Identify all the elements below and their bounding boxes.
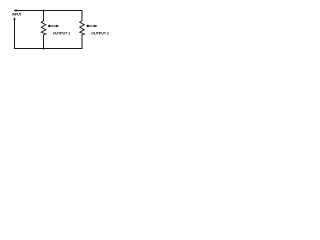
- wire bottom rail: [14, 48, 83, 50]
- output 2 current arrow (dot + arrow right): [87, 25, 89, 27]
- wire top rail: [15, 10, 83, 12]
- wire branch 1 lower: [43, 35, 45, 49]
- wire input vertical: [14, 19, 16, 48]
- svg-text:OUTPUT 2: OUTPUT 2: [91, 30, 110, 35]
- resistor R2: [80, 21, 85, 35]
- wire branch 2 lower: [81, 35, 83, 49]
- svg-text:OUTPUT 1: OUTPUT 1: [53, 30, 72, 35]
- node B (bottom junction dot): [43, 48, 45, 50]
- wire branch 2 upper: [81, 11, 83, 22]
- input arrowhead on top rail: [14, 9, 17, 11]
- node A (top junction dot): [43, 10, 45, 12]
- svg-text:INPUT: INPUT: [12, 13, 22, 17]
- resistor R1: [41, 21, 46, 35]
- output 1 current arrow (dot + arrow right): [48, 25, 50, 27]
- input current up-arrowhead: [13, 17, 15, 20]
- wire branch 1 upper: [43, 11, 45, 22]
